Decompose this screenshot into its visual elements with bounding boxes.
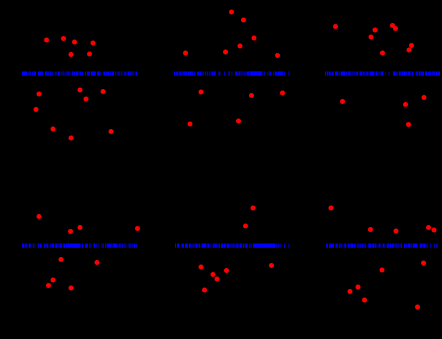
blue solid blocks [68,71,275,247]
red dots S12a [183,10,280,59]
blue tick band 6 [326,244,438,248]
red dots S13b [340,95,427,127]
red dots S22a [243,206,256,229]
red dots S13a [333,23,414,56]
red dots S12b [188,90,286,127]
red dots S22b [199,263,275,293]
blue tick band 3 [325,71,440,75]
red dots S21a [37,214,141,234]
red dots S11b [34,88,114,141]
red dots S23a [329,206,437,234]
red dots S23b [348,261,427,310]
blue tick band 5 [175,244,289,248]
red dots S21b [46,257,100,291]
blue tick band 2 [174,71,289,75]
blue tick band 4 [22,244,137,248]
blue tick band 1 [22,71,137,75]
red dots S11a [44,36,96,57]
